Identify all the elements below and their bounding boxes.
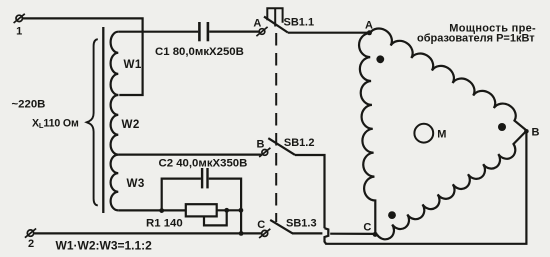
switch blade SB1.3 <box>270 220 292 233</box>
svg-text:W1: W1 <box>124 58 142 71</box>
terminal 1 <box>16 15 22 21</box>
motor symbol M <box>414 124 433 143</box>
svg-text:образователя Р=1кВт: образователя Р=1кВт <box>417 32 535 44</box>
wire down to bus <box>240 210 242 233</box>
resistor R1 <box>186 204 217 216</box>
vertex A junction <box>367 30 372 35</box>
svg-text:SB1.2: SB1.2 <box>284 137 315 149</box>
wire terminal1 to tap W1/W2 <box>23 18 143 95</box>
terminal 2 <box>27 230 33 236</box>
motor winding top edge <box>370 28 526 130</box>
vertex C junction <box>373 232 378 237</box>
wire W1-top to C1 <box>118 31 198 33</box>
capacitor C2 <box>201 168 203 188</box>
wire W3-bottom <box>118 209 186 211</box>
svg-text:A: A <box>365 19 373 31</box>
wire SB1.3 to vertex C <box>292 232 322 234</box>
junction <box>239 231 244 236</box>
terminal B <box>262 150 268 156</box>
svg-text:C: C <box>363 221 371 233</box>
svg-text:SB1.3: SB1.3 <box>286 217 317 229</box>
svg-text:SB1.1: SB1.1 <box>284 16 315 28</box>
winding W2 <box>111 95 119 155</box>
svg-text:B: B <box>532 127 540 139</box>
svg-text:A: A <box>253 17 261 29</box>
wire C2 to junction <box>209 179 241 210</box>
phase dot B <box>498 123 506 131</box>
brace Xl <box>87 39 98 205</box>
svg-text:С2 40,0мкХ350В: С2 40,0мкХ350В <box>159 158 248 170</box>
wire C1 to terminal A <box>209 31 259 33</box>
svg-text:W1·W2:W3=1.1:2: W1·W2:W3=1.1:2 <box>56 238 153 252</box>
wire SB1.1 to motor A <box>288 32 370 34</box>
winding W1 <box>111 32 119 95</box>
vertex B junction <box>524 129 529 134</box>
pushbutton cap SB1.1 <box>267 8 282 23</box>
wire to C2 <box>162 179 201 211</box>
bottom bus wire <box>34 232 261 234</box>
motor winding left edge <box>359 33 375 234</box>
R1 wiper loop <box>204 211 227 225</box>
wire SB1.2 to vertex B <box>295 155 325 228</box>
svg-text:C: C <box>257 219 265 231</box>
terminal A <box>259 29 265 35</box>
terminal C <box>262 230 268 236</box>
junction <box>224 208 229 213</box>
winding W3 <box>111 155 119 211</box>
svg-text:С1 80,0мкХ250В: С1 80,0мкХ250В <box>155 46 244 58</box>
transformer core <box>102 27 104 213</box>
switch blade SB1.1 <box>264 17 288 33</box>
switch blade SB1.2 <box>268 138 295 155</box>
svg-text:~220В: ~220В <box>12 99 46 111</box>
svg-text:XL110 Ом: XL110 Ом <box>32 118 79 131</box>
svg-text:B: B <box>257 139 265 151</box>
mechanical link (dashed) <box>275 33 277 222</box>
junction <box>159 208 164 213</box>
motor winding bottom edge <box>377 131 526 239</box>
svg-text:R1 140: R1 140 <box>146 218 183 230</box>
svg-text:1: 1 <box>16 26 22 38</box>
junction <box>239 208 244 213</box>
svg-text:М: М <box>437 128 446 140</box>
svg-text:2: 2 <box>28 238 34 250</box>
phase dot C <box>388 211 396 219</box>
capacitor C1 <box>198 22 201 41</box>
phase dot A <box>376 55 384 63</box>
wire R1 right <box>217 209 242 211</box>
svg-text:W2: W2 <box>122 118 140 131</box>
svg-text:W3: W3 <box>127 177 145 190</box>
wire tap to terminal B <box>118 154 261 156</box>
